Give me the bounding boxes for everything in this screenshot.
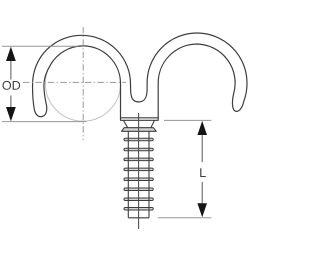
pipe vertical centerline [82, 27, 84, 140]
collar trapezoid sides [123, 120, 154, 127]
OD arrow up [6, 47, 16, 61]
OD extension line bottom [2, 121, 87, 123]
body bottom edge line [121, 117, 159, 119]
screw flange 1 (collar flange, widest) [122, 128, 157, 132]
L arrow up [197, 121, 207, 135]
OD dimension line shafts [10, 61, 12, 108]
L extension line top [164, 119, 211, 121]
label OD [2, 81, 20, 90]
OD arrow down [6, 107, 16, 121]
pipe cross-section circle (diameter OD) [45, 46, 120, 121]
pipe horizontal centerline [23, 81, 126, 83]
L arrow down [197, 203, 207, 217]
screw axis line [138, 113, 140, 229]
OD extension line top [2, 45, 78, 47]
L extension line bottom [158, 217, 212, 219]
label L [200, 168, 206, 177]
screw core shaft [128, 131, 149, 218]
L dimension line shafts [201, 135, 203, 204]
clamp outline: left clip ring, centre groove, right open hook, body [33, 33, 247, 120]
screw thread crests (flanges 2-9) [124, 138, 153, 210]
